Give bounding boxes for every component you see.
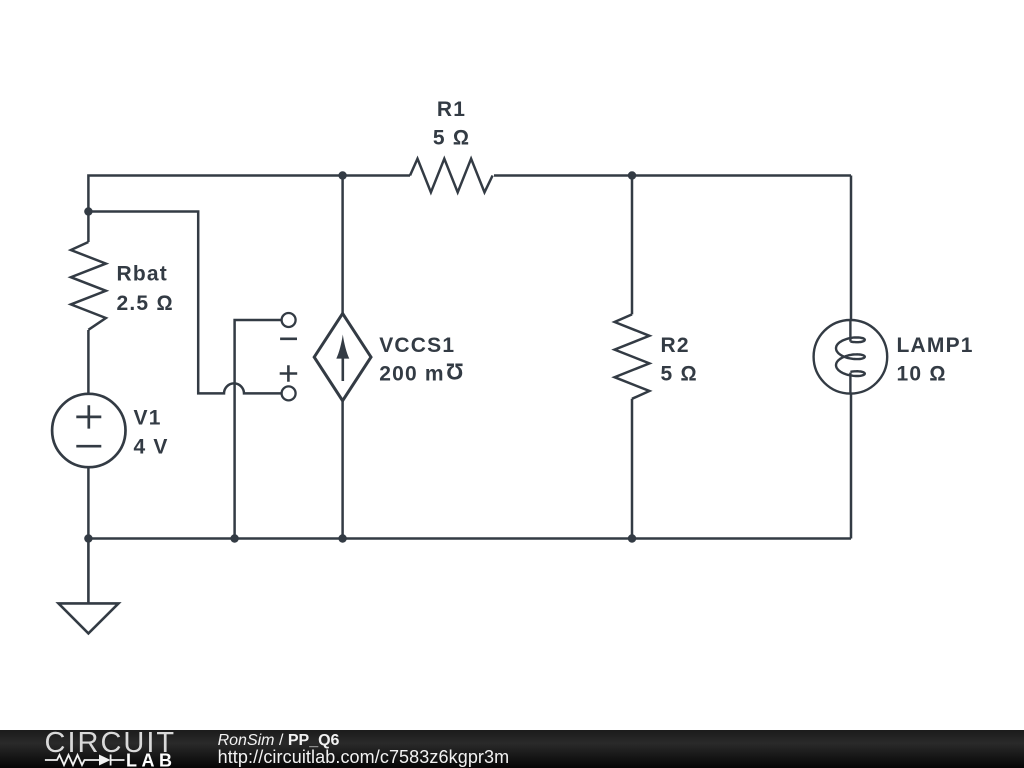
label LAMP1 value	[897, 334, 974, 386]
resistor Rbat	[71, 242, 106, 330]
node R2 top junction	[628, 171, 636, 179]
plus sign	[280, 365, 298, 381]
svg-text:Rbat: Rbat	[117, 263, 168, 286]
node VCCS1 bottom junction	[338, 534, 346, 542]
svg-text:VCCS1: VCCS1	[379, 334, 455, 357]
wire R2 top lead	[631, 176, 634, 315]
minus sign	[280, 337, 297, 340]
label Rbat value	[117, 263, 174, 315]
CircuitLab logo resistor-diode glyph	[45, 755, 125, 766]
svg-text:5 Ω: 5 Ω	[661, 363, 698, 386]
svg-text:200 m: 200 m	[379, 363, 445, 386]
lamp filament coil	[836, 337, 865, 376]
svg-text:LAB: LAB	[126, 751, 177, 768]
svg-text:LAMP1: LAMP1	[897, 334, 974, 357]
lamp lead inside top	[849, 320, 851, 342]
label R2 value	[661, 334, 698, 386]
lamp LAMP1	[814, 320, 888, 394]
svg-text:Ω: Ω	[445, 359, 464, 385]
wire VCCS1 top lead	[341, 176, 344, 314]
lamp lead inside bottom	[849, 373, 851, 394]
footer bar	[0, 730, 1024, 768]
node R2 bottom junction	[628, 534, 636, 542]
node control bottom junction	[230, 534, 238, 542]
wire Rbat to V1	[87, 330, 90, 394]
wire top left segment	[88, 176, 410, 212]
wire Rbat top lead	[87, 212, 90, 243]
svg-text:2.5 Ω: 2.5 Ω	[117, 292, 174, 315]
vccs VCCS1 arrow	[336, 335, 349, 359]
wire top right segment	[494, 174, 851, 177]
svg-text:R1: R1	[437, 98, 466, 121]
wire control branch: node A to plus terminal with hop	[88, 212, 281, 394]
svg-text:R2: R2	[661, 334, 690, 357]
ground	[59, 539, 119, 634]
terminal minus (control)	[282, 313, 296, 400]
svg-text:V1: V1	[134, 407, 162, 430]
node A (Rbat top junction)	[84, 207, 92, 215]
wire bottom rail	[88, 537, 851, 540]
wire R2 bottom lead	[631, 399, 634, 539]
label R1 value	[433, 98, 470, 150]
resistor R2	[615, 314, 650, 398]
label V1 value	[134, 407, 169, 459]
vccs VCCS1	[314, 314, 371, 401]
label VCCS1 value	[379, 334, 463, 386]
svg-text:5 Ω: 5 Ω	[433, 127, 470, 150]
resistor R1	[410, 159, 493, 193]
node VCCS1 top junction	[338, 171, 346, 179]
wire VCCS1 bottom lead	[341, 401, 344, 539]
svg-text:4 V: 4 V	[134, 436, 169, 459]
voltage source V1	[52, 394, 125, 467]
vccs VCCS1 arrow shaft	[341, 357, 344, 381]
wire right drop to LAMP1	[850, 176, 853, 321]
wire V1 to bottom rail	[87, 467, 90, 538]
svg-text:10 Ω: 10 Ω	[897, 363, 947, 386]
svg-text:http://circuitlab.com/c7583z6k: http://circuitlab.com/c7583z6kgpr3m	[218, 747, 510, 767]
wire minus terminal to bottom rail	[235, 320, 282, 539]
wire LAMP1 bottom to bottom rail	[850, 394, 853, 539]
node ground junction	[84, 534, 92, 542]
